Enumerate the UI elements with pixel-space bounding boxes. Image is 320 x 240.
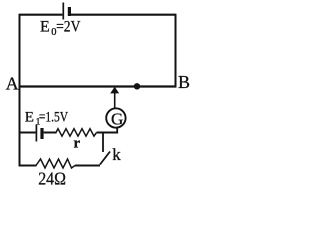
wire top right segment [71, 14, 176, 16]
wire switch fixed contact [102, 133, 104, 153]
battery E1 [36, 125, 42, 142]
svg-text:G: G [111, 110, 123, 129]
junction dot on AB [134, 83, 140, 89]
wire AB potentiometer [20, 85, 177, 87]
jockey arrow [110, 87, 119, 109]
resistor 24 ohm [36, 159, 75, 168]
svg-text:k: k [112, 145, 121, 164]
wire right vertical [175, 14, 177, 88]
svg-text:24Ω: 24Ω [38, 169, 66, 187]
svg-text:E: E [25, 110, 34, 126]
svg-text:=2V: =2V [56, 18, 81, 35]
svg-text:B: B [178, 72, 190, 92]
galvanometer G [106, 108, 125, 127]
switch k blade [100, 152, 110, 165]
wire G bottom stub [116, 127, 118, 134]
wire branch left segment [19, 132, 36, 134]
svg-text:r: r [74, 136, 81, 152]
wire battery to resistor r [44, 132, 57, 134]
battery E0 [63, 3, 69, 20]
wire top left segment [20, 14, 63, 16]
wire resistor r to G [97, 132, 119, 134]
wire 24 ohm to switch [75, 165, 100, 167]
resistor r [56, 129, 97, 137]
svg-text:A: A [6, 73, 19, 93]
svg-text:=1.5V: =1.5V [39, 110, 68, 126]
wire left vertical [19, 14, 21, 167]
wire bottom left segment [20, 165, 37, 167]
svg-text:E: E [40, 18, 50, 35]
